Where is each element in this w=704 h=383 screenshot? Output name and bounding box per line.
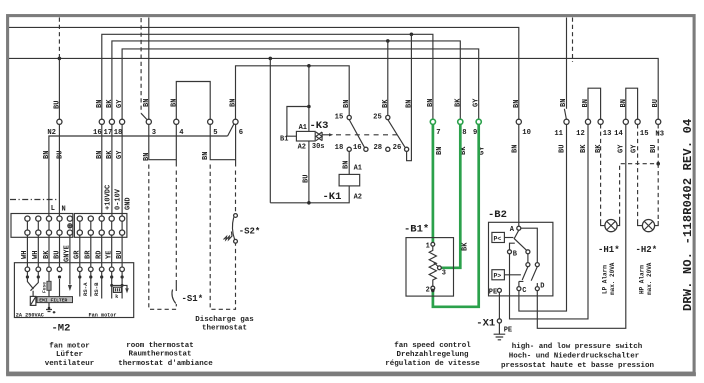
svg-text:PE: PE bbox=[504, 327, 512, 335]
terminal 18 bbox=[114, 119, 125, 137]
svg-text:B1: B1 bbox=[280, 136, 288, 144]
terminal 6 bbox=[233, 119, 243, 137]
wire corner into H1 bbox=[601, 221, 605, 226]
wire neutral drop to coil rail bbox=[269, 58, 271, 202]
svg-text:15: 15 bbox=[335, 114, 344, 122]
wire dashed 13 to lamp H1 bbox=[600, 124, 602, 221]
svg-text:BR: BR bbox=[85, 250, 93, 259]
contact K1 15 bbox=[335, 114, 352, 122]
wire bus 6-K1 contact 15 bbox=[236, 66, 350, 120]
wire dashed discharge thermostat leg 6 bbox=[235, 171, 237, 214]
svg-text:BK: BK bbox=[106, 99, 114, 108]
wire bus 17-8 (BK) bbox=[112, 41, 460, 119]
contact K3 26 bbox=[393, 144, 409, 152]
svg-text:BK: BK bbox=[106, 150, 114, 159]
terminal 5 bbox=[208, 119, 218, 137]
B1 terminal 2 bbox=[426, 286, 435, 294]
svg-text:8: 8 bbox=[462, 129, 466, 137]
motor winding switch blades bbox=[27, 272, 38, 291]
potentiometer resistor bbox=[429, 246, 436, 286]
svg-text:30s: 30s bbox=[312, 143, 325, 151]
svg-text:GY: GY bbox=[473, 98, 481, 107]
svg-text:Hoch- und Niederdruckschalter: Hoch- und Niederdruckschalter bbox=[509, 352, 640, 360]
svg-text:C: C bbox=[522, 287, 526, 295]
svg-text:Lüfter: Lüfter bbox=[56, 351, 83, 359]
svg-text:GNYE: GNYE bbox=[64, 245, 72, 262]
switch blade A bbox=[514, 230, 526, 250]
wire corner into H2 bbox=[638, 221, 643, 226]
svg-text:HP Alarm: HP Alarm bbox=[639, 265, 646, 294]
svg-text:1: 1 bbox=[426, 243, 430, 251]
node junction bus6/K3 coil bbox=[307, 64, 311, 68]
motor pin YE bbox=[109, 267, 114, 272]
strip terminals column 6 (GR) bbox=[77, 216, 82, 235]
timer symbol K3 bbox=[316, 132, 322, 141]
wire bus N (to N3) bbox=[9, 58, 658, 119]
switch blade to D bbox=[531, 267, 537, 287]
svg-text:BU: BU bbox=[57, 151, 65, 159]
P-low box bbox=[492, 232, 514, 242]
svg-text:-K1: -K1 bbox=[323, 191, 342, 203]
wires strip to motor pins bbox=[27, 235, 122, 284]
svg-text:EMI FILTER: EMI FILTER bbox=[39, 298, 67, 304]
motor M2 box bbox=[14, 263, 133, 318]
terminal 15 bbox=[635, 119, 649, 138]
wire green 7 to B1 terminal 1 bbox=[432, 124, 435, 242]
switch blade into terminal 11 bbox=[564, 109, 566, 120]
wire jumper terminals 4-5 bbox=[176, 82, 210, 120]
svg-text:-H1*: -H1* bbox=[598, 245, 620, 255]
switch S1 room thermostat bbox=[172, 284, 176, 304]
svg-text:BN: BN bbox=[343, 161, 351, 169]
switch blade K3 contact bbox=[388, 120, 405, 148]
svg-text:P>: P> bbox=[494, 273, 502, 280]
wire 18 to GND bbox=[121, 124, 123, 216]
terminal strip right block bbox=[74, 214, 127, 238]
svg-text:D: D bbox=[540, 283, 544, 291]
svg-text:BN: BN bbox=[43, 151, 51, 159]
svg-text:BU: BU bbox=[116, 251, 124, 259]
lamp H2 bbox=[642, 220, 654, 232]
wire 5 to 6 join bbox=[210, 124, 235, 166]
terminal 12 bbox=[576, 119, 590, 138]
wire rail terminal 6 to L bbox=[49, 136, 228, 216]
svg-text:14: 14 bbox=[614, 130, 623, 138]
wire supply above terminal 11 bbox=[566, 18, 568, 109]
wire C to terminal 11 bbox=[519, 124, 567, 311]
contact K1 18 bbox=[335, 144, 352, 152]
wire dashed 15 to lamp H2 bbox=[637, 124, 639, 221]
B1 terminal 1 bbox=[426, 242, 435, 250]
wire H1 return dashed to N3 bbox=[617, 221, 620, 226]
svg-text:11: 11 bbox=[554, 130, 563, 138]
terminal 16 bbox=[93, 119, 104, 137]
switch blade into terminal 3 bbox=[141, 113, 147, 119]
motor leads GR BR stubs bbox=[80, 272, 91, 297]
svg-text:18: 18 bbox=[335, 144, 344, 152]
strip terminals column 1 (WH) bbox=[25, 216, 30, 235]
svg-text:GND: GND bbox=[124, 197, 132, 210]
B2 contact B bbox=[508, 243, 518, 258]
strip terminals column 4 (N/BU) bbox=[57, 216, 62, 235]
svg-text:BN: BN bbox=[96, 100, 104, 108]
GNYE chassis arrow bbox=[68, 285, 72, 291]
strip terminals column 2 (WH) bbox=[36, 216, 41, 235]
svg-text:13: 13 bbox=[603, 130, 612, 138]
svg-text:BN: BN bbox=[343, 100, 351, 108]
svg-text:12: 12 bbox=[576, 130, 585, 138]
B2 contact A bbox=[510, 226, 521, 234]
EMI filter earth symbols bbox=[46, 303, 52, 312]
wire 10 to B2 A bbox=[518, 124, 520, 226]
relay coil K1 bbox=[339, 174, 360, 186]
pressure switch B2 box bbox=[489, 222, 553, 296]
terminal N2 bbox=[47, 119, 62, 137]
switch blade K1 contact bbox=[349, 120, 364, 148]
wire jumper terminals 12-13 bbox=[588, 88, 601, 119]
svg-text:fan speed control: fan speed control bbox=[394, 342, 471, 350]
svg-text:3: 3 bbox=[442, 270, 446, 278]
terminal 8 bbox=[458, 119, 467, 137]
wire N2 to bus N bbox=[58, 58, 60, 119]
svg-text:-X1: -X1 bbox=[476, 318, 495, 330]
wire bus 16-7 (BN) bbox=[102, 34, 433, 119]
terminal 13 bbox=[598, 119, 611, 138]
svg-text:DRW. NO. -118R0402 REV. 04: DRW. NO. -118R0402 REV. 04 bbox=[681, 119, 695, 311]
wire bus 18-9 (GY) bbox=[122, 49, 479, 119]
svg-text:9: 9 bbox=[473, 129, 477, 137]
wire drop to contact 25 bbox=[387, 41, 389, 115]
svg-text:ventilateur: ventilateur bbox=[45, 360, 95, 368]
svg-text:N: N bbox=[62, 206, 66, 214]
terminal X1 bbox=[476, 318, 512, 335]
svg-text:RS-B: RS-B bbox=[93, 282, 100, 296]
svg-text:A1: A1 bbox=[354, 164, 362, 172]
speed sensor block bbox=[110, 284, 127, 300]
wire bus L1 (top, to terminal 10) bbox=[9, 27, 519, 119]
wire K3 coil feed A1 bbox=[308, 66, 310, 132]
terminal strip left block bbox=[11, 214, 73, 238]
node junction bus16/contact26 bbox=[410, 33, 414, 37]
potentiometer wiper tap 3 bbox=[433, 262, 446, 278]
svg-text:pressostat haute et basse pres: pressostat haute et basse pression bbox=[501, 362, 655, 370]
strip terminals column 5 (PE/GNYE) bbox=[67, 216, 72, 235]
motor pin RD bbox=[99, 267, 104, 272]
node junction bus17/contact25 bbox=[386, 39, 390, 43]
mechanical linkage arrow K3 bbox=[323, 134, 330, 136]
svg-text:BN: BN bbox=[143, 99, 151, 107]
strip terminals column 7 (BR) bbox=[88, 216, 93, 235]
svg-text:BN: BN bbox=[170, 99, 178, 107]
svg-text:28: 28 bbox=[373, 144, 382, 152]
svg-text:LP Alarm: LP Alarm bbox=[602, 265, 609, 294]
svg-text:7: 7 bbox=[436, 129, 440, 137]
svg-text:GY: GY bbox=[116, 99, 124, 108]
node junction K3A2/rail bbox=[307, 201, 311, 205]
svg-text:Drehzahlregelung: Drehzahlregelung bbox=[396, 351, 469, 359]
wire dashed supply above N2 bbox=[58, 18, 60, 58]
svg-text:2: 2 bbox=[426, 286, 430, 294]
svg-text:0-10V: 0-10V bbox=[115, 188, 123, 210]
svg-text:GY: GY bbox=[618, 144, 626, 153]
motor pin GR bbox=[78, 267, 83, 272]
terminal 11 bbox=[554, 119, 569, 138]
strip terminals column 9 (YE) bbox=[109, 216, 114, 235]
node junction lamp return/N3 bbox=[656, 162, 660, 166]
node junction K-coil neutral/bus bbox=[269, 57, 273, 61]
relay coil K3 (timer) bbox=[296, 131, 315, 141]
svg-text:16: 16 bbox=[353, 144, 362, 152]
svg-text:BU: BU bbox=[303, 175, 311, 183]
strip terminals column 8 (RD) bbox=[99, 216, 104, 235]
svg-text:BN: BN bbox=[513, 100, 521, 108]
sensor chassis arrow bbox=[125, 288, 129, 293]
motor pin BU2 bbox=[120, 267, 125, 272]
B2 contact D bbox=[535, 283, 544, 291]
svg-text:A2: A2 bbox=[298, 144, 306, 152]
wire 16 to +10VDC bbox=[101, 124, 103, 216]
svg-text:BU: BU bbox=[559, 145, 567, 153]
border frame bottom band (decorative) bbox=[6, 372, 696, 376]
svg-text:BU: BU bbox=[53, 251, 61, 259]
svg-text:BN: BN bbox=[511, 145, 519, 153]
motor pin WH2 bbox=[36, 267, 41, 272]
svg-text:15: 15 bbox=[640, 130, 649, 138]
svg-text:room thermostat: room thermostat bbox=[126, 342, 194, 350]
wire PE to X1 bbox=[498, 292, 500, 318]
wire B to terminal 12 bbox=[510, 124, 589, 319]
terminal 17 bbox=[104, 119, 115, 137]
strip terminals column 3 (L/BK) bbox=[46, 216, 51, 235]
svg-text:P<: P< bbox=[494, 235, 502, 242]
svg-text:A1: A1 bbox=[299, 124, 307, 132]
wire green 9 to B1 terminal 2 bbox=[433, 124, 479, 306]
svg-text:BN: BN bbox=[427, 99, 435, 107]
svg-text:N3: N3 bbox=[655, 131, 664, 139]
svg-text:BK: BK bbox=[580, 144, 588, 153]
svg-text:L: L bbox=[51, 205, 55, 213]
svg-text:-M2: -M2 bbox=[52, 323, 71, 335]
mechanical linkage dashed bbox=[336, 134, 400, 136]
svg-text:RS-A: RS-A bbox=[82, 282, 89, 296]
wire supply above terminal 3 bbox=[148, 18, 150, 120]
B2 contact C bbox=[517, 287, 527, 295]
motor pin BK bbox=[47, 267, 52, 272]
B2 mid contact M3 bbox=[526, 263, 530, 267]
terminal 7 bbox=[430, 119, 440, 137]
P-high box bbox=[492, 270, 521, 280]
svg-text:2A 250VAC: 2A 250VAC bbox=[16, 312, 44, 318]
svg-text:-H2*: -H2* bbox=[636, 245, 658, 255]
wire 17 to 0-10V bbox=[111, 124, 113, 216]
svg-text:BU: BU bbox=[652, 99, 660, 107]
wire branch to K3 B1 bbox=[287, 107, 309, 137]
svg-text:WH: WH bbox=[21, 251, 29, 259]
B2 branch A to M2 bbox=[521, 228, 538, 262]
node junction A1/B1 branch bbox=[307, 105, 311, 109]
contact K3 25 bbox=[373, 114, 390, 122]
motor leads RD YE BU stubs bbox=[102, 272, 122, 299]
strip terminals column 10 (BU) bbox=[120, 216, 125, 235]
svg-text:BN: BN bbox=[620, 99, 628, 107]
terminal 14 bbox=[614, 119, 628, 138]
svg-text:GR: GR bbox=[74, 250, 82, 259]
svg-text:k: k bbox=[115, 294, 118, 300]
switch S2 discharge gas thermostat bbox=[224, 214, 238, 244]
wire N2 to motor strip bbox=[58, 124, 60, 216]
node junction B1-2/green bbox=[431, 289, 435, 293]
svg-text:Fan motor: Fan motor bbox=[89, 312, 117, 318]
wire green 8 to B1 wiper bbox=[442, 124, 461, 267]
svg-text:PE: PE bbox=[489, 289, 497, 297]
svg-text:GY: GY bbox=[116, 150, 124, 159]
svg-text:BU: BU bbox=[53, 101, 61, 109]
terminal 3 bbox=[146, 119, 156, 137]
ground symbol X1 bbox=[494, 323, 506, 340]
motor pin BU bbox=[57, 267, 62, 272]
dash-dot enclosure boundary bbox=[10, 199, 57, 201]
EMI FILTER box bbox=[37, 297, 73, 304]
svg-text:WH: WH bbox=[32, 251, 40, 259]
wire BU to EMI filter bbox=[59, 279, 61, 297]
svg-text:thermostat d'ambiance: thermostat d'ambiance bbox=[118, 360, 213, 368]
wire jumper terminals 14-15 bbox=[626, 88, 638, 119]
svg-text:BK: BK bbox=[462, 242, 470, 251]
svg-text:BK: BK bbox=[43, 250, 51, 259]
svg-text:-K3: -K3 bbox=[310, 120, 329, 132]
B2 mid contact M1 bbox=[526, 250, 530, 263]
svg-text:régulation de vitesse: régulation de vitesse bbox=[385, 360, 480, 368]
svg-text:-S1*: -S1* bbox=[182, 294, 204, 304]
wire dashed discharge thermostat leg 5 bbox=[210, 165, 235, 310]
wire dashed room thermostat leg 4 bbox=[175, 171, 177, 285]
svg-text:26: 26 bbox=[393, 144, 402, 152]
switch blade to C bbox=[519, 267, 528, 287]
svg-text:BN: BN bbox=[436, 147, 444, 155]
node junction N2/bus bbox=[58, 57, 62, 61]
svg-text:-B1*: -B1* bbox=[404, 224, 429, 236]
svg-text:A2: A2 bbox=[354, 193, 362, 201]
svg-text:fan motor: fan motor bbox=[49, 343, 90, 351]
svg-text:10: 10 bbox=[522, 129, 531, 137]
svg-text:-S2*: -S2* bbox=[239, 227, 261, 237]
wire coil return rail bbox=[270, 186, 349, 203]
svg-text:Raumthermostat: Raumthermostat bbox=[128, 351, 191, 359]
svg-text:BN: BN bbox=[560, 99, 568, 107]
svg-text:RD: RD bbox=[96, 251, 104, 259]
terminal 10 bbox=[516, 119, 531, 137]
wire dashed H2 return riser bbox=[657, 164, 659, 221]
svg-text:25: 25 bbox=[373, 114, 382, 122]
svg-text:BN: BN bbox=[96, 151, 104, 159]
svg-text:Fuse: Fuse bbox=[42, 282, 48, 293]
svg-text:max. 20VA: max. 20VA bbox=[646, 262, 653, 295]
wire dashed room thermostat leg 3 bbox=[149, 165, 177, 310]
wire dashed above terminal 3 bbox=[140, 18, 142, 113]
svg-text:thermostat: thermostat bbox=[202, 325, 247, 333]
svg-text:BN: BN bbox=[582, 99, 590, 107]
wire 3 to 4 join bbox=[149, 124, 177, 166]
svg-text:BK: BK bbox=[382, 99, 390, 108]
fuse F (BK line) bbox=[47, 272, 51, 297]
lamp H1 bbox=[605, 220, 617, 232]
wire K3 A2 down bbox=[308, 141, 310, 203]
svg-text:BK: BK bbox=[454, 98, 462, 107]
svg-text:+10VDC: +10VDC bbox=[104, 185, 112, 210]
svg-text:BU: BU bbox=[650, 145, 658, 153]
svg-text:max. 20VA: max. 20VA bbox=[609, 262, 616, 295]
wire 18 to K1 A1 bbox=[348, 151, 350, 174]
contact K3 28 bbox=[373, 144, 389, 152]
motor internal junction dots bbox=[26, 275, 29, 278]
svg-text:Discharge gas: Discharge gas bbox=[195, 316, 254, 324]
svg-text:BN: BN bbox=[405, 100, 413, 108]
svg-text:6: 6 bbox=[239, 129, 243, 137]
svg-text:BN: BN bbox=[230, 99, 238, 107]
wire long dashed option line right of 11 bbox=[572, 18, 574, 63]
switch blade rail to terminal 6 bbox=[228, 124, 234, 136]
svg-text:BK: BK bbox=[595, 144, 603, 153]
wire drop to contact 26 bbox=[407, 34, 412, 160]
terminal N3 bbox=[655, 119, 664, 138]
contact K1 16 bbox=[353, 144, 368, 152]
thermal protector bbox=[30, 296, 36, 305]
B2 mid contact M2 bbox=[535, 263, 539, 267]
wire D to terminal 14 bbox=[537, 124, 626, 328]
motor pin WH1 bbox=[25, 267, 30, 272]
svg-text:BN: BN bbox=[202, 152, 210, 160]
terminal 4 bbox=[174, 119, 185, 137]
terminal 9 bbox=[473, 119, 481, 137]
speed controller B1 box bbox=[406, 238, 454, 297]
svg-text:-B2: -B2 bbox=[488, 209, 507, 221]
svg-text:high- and low pressure switch: high- and low pressure switch bbox=[512, 343, 643, 351]
svg-text:YE: YE bbox=[106, 251, 114, 259]
B2 contact PE bbox=[489, 288, 502, 296]
motor pin BR bbox=[89, 267, 94, 272]
wire dashed N3 drop bbox=[657, 124, 659, 163]
